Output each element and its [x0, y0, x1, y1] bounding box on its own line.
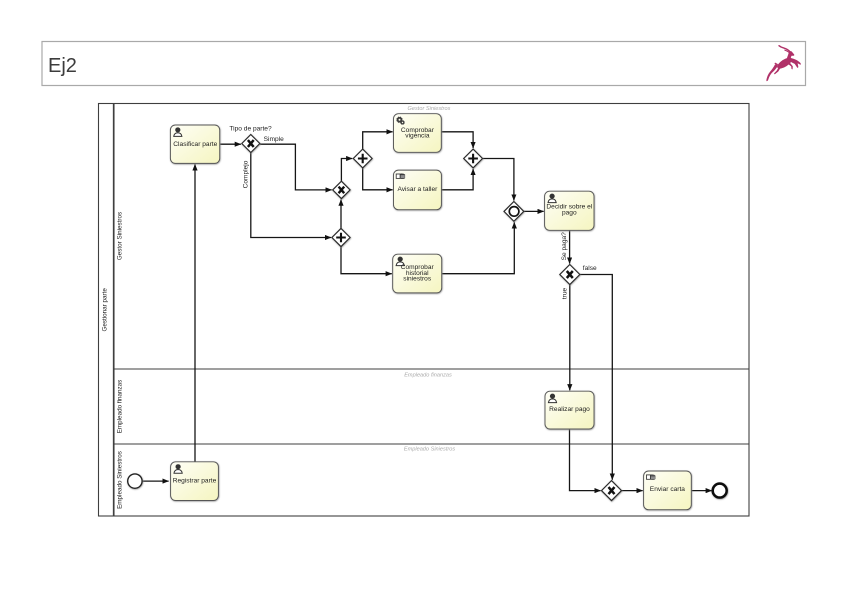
rear leg long	[766, 64, 778, 81]
horns	[779, 46, 791, 53]
gateway gw3 parallel plus	[332, 228, 350, 246]
flow gw6->Realizar pago true	[569, 285, 571, 391]
flow gw2->gw4	[341, 159, 352, 182]
svg-text:Simple: Simple	[264, 136, 284, 143]
flow Enviar carta->end	[691, 490, 712, 492]
task Decidir sobre el pago	[545, 191, 594, 230]
svg-text:Realizar pago: Realizar pago	[549, 406, 590, 413]
lane divider 2	[114, 443, 749, 445]
front leg lower	[788, 63, 793, 70]
pool label divider	[113, 104, 115, 517]
svg-text:Avisar a taller: Avisar a taller	[397, 186, 438, 193]
svg-text:Tipo de parte?: Tipo de parte?	[229, 126, 272, 133]
gateway gw2 exclusive X merge	[333, 181, 350, 198]
svg-text:Empleado Siniestros: Empleado Siniestros	[404, 447, 456, 453]
rear leg short	[774, 67, 781, 75]
flow gw1->gw2 Simple	[260, 144, 332, 190]
svg-text:Empleado Siniestros: Empleado Siniestros	[116, 451, 123, 509]
svg-text:vigencia: vigencia	[405, 133, 430, 140]
gateway gw1 exclusive X Tipo de parte	[242, 135, 260, 153]
flow gw7->Enviar carta	[622, 490, 643, 492]
svg-text:Gestor Siniestros: Gestor Siniestros	[408, 106, 451, 112]
gateway inclusive O	[504, 202, 524, 222]
body	[776, 55, 794, 70]
flow Comprobar historial->inclusive gateway	[442, 222, 515, 273]
svg-text:true: true	[561, 287, 568, 299]
flow gw1->gw3 Complejo	[251, 153, 331, 238]
head	[788, 51, 794, 56]
svg-text:Gestor Siniestros: Gestor Siniestros	[116, 212, 123, 260]
lane divider 1	[114, 368, 749, 370]
flow gw3->gw2	[340, 200, 342, 229]
flow gw4->Avisar a taller	[363, 168, 393, 190]
svg-text:Clasificar parte: Clasificar parte	[173, 141, 217, 148]
gateway gw7 exclusive X merge final	[602, 481, 622, 501]
gateway gw4 parallel plus split	[353, 149, 372, 168]
front leg upper	[790, 58, 801, 68]
flow Realizar pago->gw7	[570, 429, 601, 491]
logo gazelle	[766, 46, 801, 82]
svg-text:Ej2: Ej2	[48, 55, 77, 77]
svg-text:pago: pago	[562, 210, 577, 217]
end event	[713, 484, 727, 498]
neck	[786, 53, 793, 62]
svg-text:Gestionar parte: Gestionar parte	[102, 288, 109, 332]
svg-text:Se paga?: Se paga?	[561, 232, 568, 261]
task Realizar pago	[545, 391, 594, 429]
svg-text:Enviar carta: Enviar carta	[650, 486, 686, 493]
task Enviar carta	[644, 471, 692, 510]
flow start->Registrar parte	[142, 480, 168, 482]
flow Decidir->gw6	[569, 230, 571, 263]
svg-text:Empleado finanzas: Empleado finanzas	[404, 373, 452, 379]
gateway gw5 parallel plus join	[464, 149, 483, 168]
flow Registrar parte->Clasificar parte	[194, 164, 196, 462]
svg-text:Empleado finanzas: Empleado finanzas	[116, 380, 123, 434]
flow inclusive gateway->Decidir	[524, 210, 544, 212]
task Avisar a taller	[394, 170, 442, 210]
pool Gestionar parte	[99, 104, 750, 517]
task Registrar parte	[171, 462, 219, 501]
flow gw3->Comprobar historial	[341, 247, 392, 274]
flow Clasificar parte->gw1	[220, 143, 241, 145]
tail	[774, 63, 778, 66]
task Clasificar parte	[170, 125, 219, 163]
task Comprobar historial siniestros	[393, 254, 442, 293]
start event	[128, 474, 142, 488]
flow gw6->gw7 false	[580, 275, 612, 480]
gateway gw6 exclusive X Se paga	[560, 265, 580, 285]
svg-text:Complejo: Complejo	[243, 160, 250, 188]
header box	[42, 42, 806, 86]
svg-text:siniestros: siniestros	[403, 276, 432, 283]
flow Comprobar vigencia->gw5	[441, 132, 473, 148]
svg-text:false: false	[583, 265, 597, 272]
task Comprobar vigencia	[394, 114, 442, 153]
flow gw4->Comprobar vigencia	[363, 132, 393, 149]
flow gw5->inclusive gateway	[483, 159, 514, 201]
svg-text:Registrar parte: Registrar parte	[173, 477, 217, 484]
flow Avisar a taller->gw5	[441, 169, 473, 190]
